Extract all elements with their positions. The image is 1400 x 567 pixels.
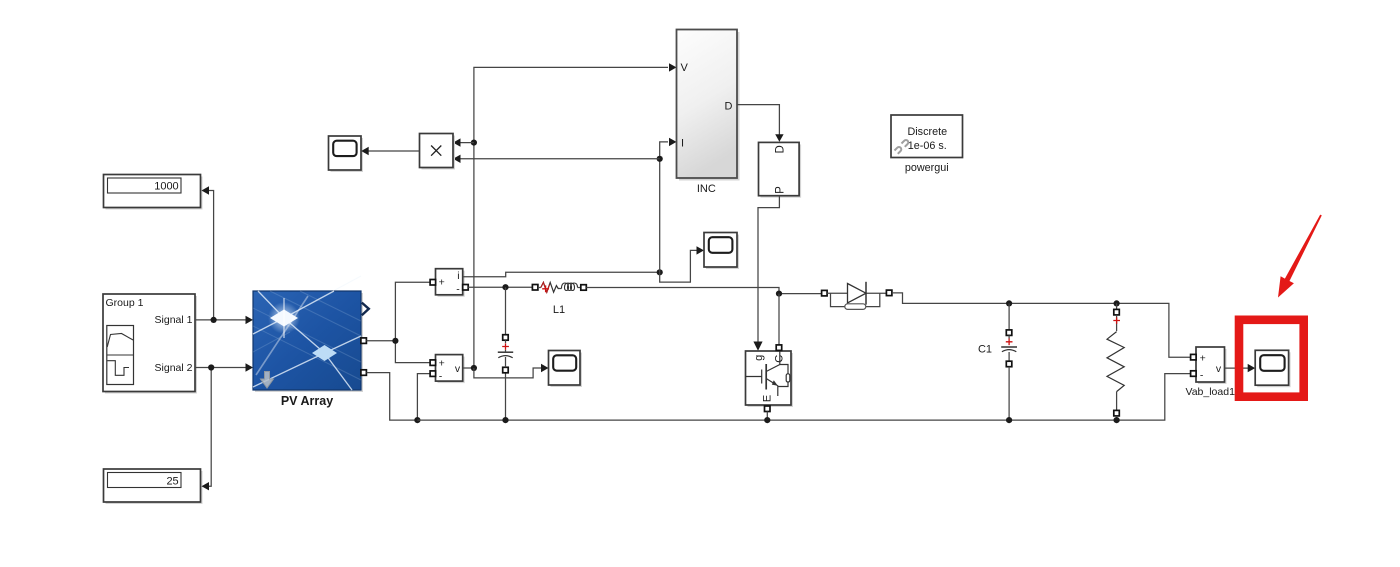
IGBT E port xyxy=(765,406,771,412)
svg-text:v: v xyxy=(1216,363,1222,375)
svg-text:L1: L1 xyxy=(553,304,565,316)
svg-text:Vab_load1: Vab_load1 xyxy=(1185,386,1235,398)
wire v to scope3 xyxy=(474,364,549,378)
scope4 xyxy=(1255,350,1290,387)
red annotation arrow xyxy=(1278,215,1322,298)
svg-text:C1: C1 xyxy=(978,343,992,355)
PV - output port xyxy=(361,370,367,376)
svg-text:Signal 1: Signal 1 xyxy=(155,314,193,326)
current measurement - port xyxy=(463,285,469,291)
wire Signal 2 to PV array xyxy=(195,363,253,371)
svg-text:25: 25 xyxy=(166,475,178,487)
Vab_load1 - port xyxy=(1191,371,1197,377)
PV + output port xyxy=(361,338,367,344)
svg-text:1e-06 s.: 1e-06 s. xyxy=(908,140,947,152)
wire i to INC I and product xyxy=(453,138,677,273)
display block 25 xyxy=(104,469,203,504)
PV Array block xyxy=(253,276,363,408)
svg-text:I: I xyxy=(681,137,684,149)
svg-text:D: D xyxy=(725,101,733,113)
wire PV+ to measurements xyxy=(366,282,430,362)
svg-text:E: E xyxy=(762,395,774,402)
wire product to scope1 xyxy=(361,147,419,155)
svg-text:1000: 1000 xyxy=(154,180,178,192)
wire Signal 1 to PV array xyxy=(195,316,253,324)
svg-text:-: - xyxy=(439,371,443,383)
wire IGBT E to rail xyxy=(764,412,770,424)
wire to display 1000 xyxy=(202,186,214,320)
wire to IGBT collector xyxy=(778,294,780,345)
svg-text:Group 1: Group 1 xyxy=(106,297,144,309)
wire PV- to bottom rail xyxy=(366,373,430,424)
current measurement + port xyxy=(430,280,436,286)
Vab_load1 voltage measurement xyxy=(1185,347,1235,398)
svg-text:V: V xyxy=(681,62,689,74)
current measurement block xyxy=(436,269,465,297)
svg-text:i: i xyxy=(457,270,459,282)
bottom rail wire xyxy=(417,374,1190,421)
svg-text:-: - xyxy=(1200,370,1204,382)
svg-text:PV Array: PV Array xyxy=(281,394,333,408)
svg-text:+: + xyxy=(439,358,445,370)
scope3 xyxy=(549,351,583,388)
inductor L1 xyxy=(532,282,586,316)
wire Vab_load1 to scope4 xyxy=(1225,364,1256,372)
svg-text:+: + xyxy=(439,276,445,288)
wire INC D to PWM block xyxy=(737,105,784,142)
svg-text:g: g xyxy=(753,355,765,361)
Vab_load1 + port xyxy=(1191,354,1197,360)
svg-text:Discrete: Discrete xyxy=(907,126,947,138)
svg-text:INC: INC xyxy=(697,183,716,195)
PWM D-P block xyxy=(759,142,802,197)
scope1 xyxy=(329,136,364,172)
voltage measurement + port xyxy=(430,360,436,366)
IGBT C port xyxy=(776,345,782,351)
load resistor xyxy=(1107,303,1124,423)
svg-text:-: - xyxy=(456,283,460,295)
wire diode to output rail xyxy=(892,293,1191,357)
powergui block xyxy=(891,115,963,174)
signal builder Group 1 xyxy=(103,294,197,394)
main wire - to L1 xyxy=(468,284,532,290)
wire v output net xyxy=(453,63,677,371)
svg-text:powergui: powergui xyxy=(905,162,949,174)
wire i to scope2 xyxy=(660,246,704,282)
diode xyxy=(822,282,892,310)
red highlight rectangle xyxy=(1239,320,1304,397)
display block 1000 xyxy=(104,175,203,210)
svg-text:D: D xyxy=(774,145,786,153)
voltage measurement block xyxy=(436,355,465,384)
input capacitor xyxy=(498,287,513,423)
capacitor C1 xyxy=(978,303,1017,423)
INC subsystem block xyxy=(677,30,740,196)
IGBT block xyxy=(746,351,794,407)
svg-text:+: + xyxy=(1200,352,1206,364)
wire PWM P to IGBT gate xyxy=(753,196,779,351)
svg-text:v: v xyxy=(455,363,461,375)
wire to display 25 xyxy=(202,368,212,491)
main wire L1 to diode xyxy=(586,288,821,297)
voltage measurement - port xyxy=(430,371,436,377)
PV measurement output chevron xyxy=(362,303,369,316)
svg-text:P: P xyxy=(774,186,786,194)
scope2 xyxy=(704,233,739,270)
product block xyxy=(420,134,456,170)
svg-text:Signal 2: Signal 2 xyxy=(155,362,193,374)
wire i output xyxy=(463,269,663,277)
